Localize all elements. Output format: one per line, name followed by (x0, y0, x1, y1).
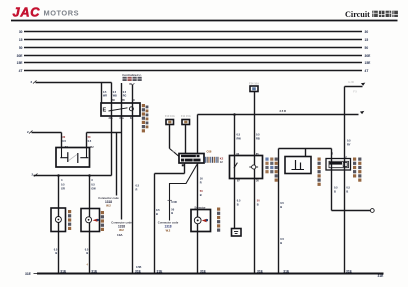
motor M3 (81, 209, 100, 232)
starter motor M1 (191, 210, 211, 232)
ground lug G1 (232, 229, 242, 237)
fuse F3 (249, 81, 259, 91)
connector label C1 (98, 196, 119, 208)
solenoid Y1 (326, 159, 351, 171)
svg-text:C08: C08 (207, 149, 212, 153)
wire v278 to ground bus (278, 149, 280, 274)
vertical text K1 name (142, 104, 145, 132)
node arrow end of W4 (360, 111, 364, 114)
relay K1 pin labels top (112, 99, 135, 102)
vertical text K2 name (265, 158, 273, 174)
wire W4 corner into X1 (197, 115, 199, 154)
wire label below M2 (54, 248, 58, 256)
wire drop to K2 pin86 (234, 115, 236, 229)
wire label below M3 (85, 248, 89, 267)
title Circuit block (345, 10, 398, 19)
wire label v278 upper (280, 201, 284, 209)
svg-text:0.5: 0.5 (91, 183, 95, 187)
svg-text:0.5: 0.5 (334, 185, 338, 189)
node junction W4-K2 (233, 113, 236, 116)
wire K1 pin86 vertical (111, 83, 113, 176)
svg-text:0.5: 0.5 (280, 237, 284, 241)
wire W-ign-left with arrow 2 (27, 130, 62, 134)
bus 30E (17, 54, 372, 58)
svg-text:31E: 31E (283, 270, 290, 274)
svg-text:0.5: 0.5 (280, 201, 284, 205)
motor M2 (51, 208, 66, 232)
wire label on v169 upper (168, 200, 177, 204)
wire label K2 pin85 wire (256, 133, 260, 141)
wire F2 down into X1 (185, 125, 187, 154)
wire W-A top left (36, 82, 112, 84)
relay K2 label left (220, 157, 224, 165)
bus 4T (19, 69, 369, 73)
svg-text:B: B (334, 189, 336, 193)
svg-text:0.5: 0.5 (85, 248, 89, 252)
wire label K1 pin86w (113, 91, 117, 97)
relay K2 (230, 156, 263, 179)
wire label v345 upper (347, 139, 351, 147)
fuse F1 (165, 114, 175, 125)
wire X1 to starter M1 (197, 163, 199, 274)
ignition switch pin labels (62, 135, 94, 149)
svg-text:0.5: 0.5 (346, 185, 350, 189)
svg-text:15E: 15E (365, 61, 372, 65)
svg-text:31E: 31E (200, 270, 207, 274)
bus 15 (19, 38, 369, 42)
svg-text:GW: GW (91, 187, 96, 191)
wire label Y1 pin2 (334, 185, 338, 193)
svg-text:0.5R: 0.5R (171, 200, 177, 204)
wire W6 stub with arrow (345, 81, 366, 93)
connector label C3 (158, 220, 179, 232)
svg-text:to 30: to 30 (348, 81, 354, 84)
wire K1 pin85 vertical (121, 83, 123, 220)
svg-text:GR: GR (61, 187, 65, 191)
svg-text:31E: 31E (25, 272, 32, 276)
svg-text:15E: 15E (17, 61, 24, 65)
svg-text:WR: WR (103, 95, 107, 98)
svg-text:W.2: W.2 (166, 229, 171, 233)
wire label M3 feed (91, 178, 96, 191)
connector label C2 (111, 221, 132, 233)
svg-text:0.5: 0.5 (256, 133, 260, 137)
relay K1 pin labels bottom (109, 117, 134, 120)
wire K1 pin1 stub (101, 83, 103, 104)
svg-text:12: 12 (220, 160, 223, 164)
wire X1 pin down-left to ground bus (155, 163, 185, 274)
fuse F2 (181, 114, 191, 125)
svg-text:0.5B: 0.5B (136, 266, 141, 269)
svg-text:B: B (156, 212, 158, 216)
wire label Y1 down (346, 185, 350, 193)
svg-text:B: B (237, 203, 239, 207)
svg-text:30E: 30E (17, 54, 24, 58)
svg-text:0.5: 0.5 (54, 248, 58, 252)
JAC logo (13, 5, 80, 20)
svg-text:30: 30 (365, 30, 369, 34)
wire stub ignition left pin (61, 133, 63, 148)
wire label M1 feed 2 (200, 189, 203, 197)
svg-text:30E: 30E (365, 54, 372, 58)
svg-text:Centralized c.: Centralized c. (122, 73, 142, 77)
svg-text:W.2: W.2 (106, 204, 111, 208)
node junction W3-M2 (57, 174, 60, 177)
svg-text:RY: RY (347, 143, 351, 147)
svg-text:87a: 87a (120, 117, 125, 120)
wire Y1 to ground bus (344, 170, 346, 274)
header rule (11, 20, 398, 22)
wire ignition to K1 (87, 132, 122, 134)
svg-text:0.5: 0.5 (88, 139, 92, 143)
wire W5 corner to Y1 pin (331, 149, 333, 211)
bus 15E (17, 61, 372, 65)
node ring terminal (370, 209, 374, 213)
svg-text:50: 50 (365, 46, 369, 50)
svg-text:2.5 R: 2.5 R (280, 109, 286, 113)
wire label K2 pin87 wire (237, 199, 241, 207)
bus 50 (19, 46, 369, 50)
wire label M2 feed (61, 178, 65, 191)
svg-text:B: B (346, 189, 348, 193)
svg-text:15: 15 (19, 38, 23, 42)
wire label M1 feed 1 (200, 177, 203, 185)
node arrow 2 at W-A (31, 80, 37, 84)
svg-text:50: 50 (19, 46, 23, 50)
svg-text:B: B (171, 211, 173, 215)
vertical text GB right (318, 158, 321, 186)
svg-text:B: B (200, 193, 202, 197)
svg-text:31E: 31E (346, 270, 353, 274)
wire label on v169 lower (171, 208, 174, 216)
wire label K2 pin86 wire (237, 133, 242, 141)
svg-text:K2: K2 (220, 157, 224, 161)
svg-text:0.5: 0.5 (61, 183, 65, 187)
svg-text:WB: WB (113, 95, 117, 98)
svg-text:B: B (280, 241, 282, 245)
svg-text:E: E (103, 108, 107, 114)
ground bus 31E (37, 273, 384, 275)
svg-text:RG: RG (123, 95, 127, 98)
wire to connector label C1 (116, 133, 118, 196)
wire label K1 pin1 (103, 91, 107, 97)
svg-text:0.5: 0.5 (136, 184, 140, 188)
svg-text:0.5: 0.5 (156, 208, 160, 212)
wire F1 diagonal into X1 (170, 149, 179, 157)
relay K1 starter relay (101, 103, 140, 116)
svg-text:30: 30 (19, 30, 23, 34)
wire label v278 (280, 237, 284, 245)
connector X1 (179, 154, 204, 164)
ground bus left label (25, 272, 37, 276)
svg-text:F 5: F 5 (353, 91, 357, 94)
wire label K2 pin30 wire (257, 199, 260, 207)
vertical text Y1 col1 (353, 158, 356, 178)
svg-text:JAC: JAC (13, 5, 41, 20)
svg-text:0.5: 0.5 (237, 199, 241, 203)
svg-text:R: R (136, 188, 138, 192)
wire label near v155 (156, 208, 160, 216)
svg-text:B: B (55, 251, 57, 255)
svg-text:1318: 1318 (105, 200, 112, 204)
svg-text:RB: RB (256, 137, 260, 141)
wire F3 down to K2 (254, 92, 256, 274)
svg-text:B: B (257, 203, 259, 207)
relay K2 pin labels bottom (237, 179, 259, 182)
svg-text:B: B (280, 205, 282, 209)
wire drop to M2 (58, 176, 60, 274)
svg-text:0.5: 0.5 (237, 133, 241, 137)
vertical text M1 name (217, 208, 220, 232)
svg-text:F24 10A: F24 10A (249, 81, 259, 85)
wire drop to M3 (89, 176, 91, 274)
relay K2 pin labels top (236, 153, 259, 156)
label central control box (122, 73, 142, 86)
svg-text:MOTORS: MOTORS (44, 8, 80, 17)
svg-text:31E: 31E (257, 270, 264, 274)
svg-text:31E: 31E (378, 274, 385, 278)
wire branch to ring terminal (332, 210, 371, 212)
svg-text:1318: 1318 (118, 224, 125, 228)
svg-text:8 C: 8 C (173, 151, 177, 154)
svg-text:4T: 4T (19, 69, 23, 73)
wire label K1 pin30 wire (136, 184, 140, 192)
bus 30 (19, 30, 369, 34)
svg-text:W.2: W.2 (119, 228, 124, 232)
svg-text:4T: 4T (365, 69, 369, 73)
svg-text:10A: 10A (117, 233, 123, 237)
wire W5 top (279, 148, 332, 150)
wire W4 main horizontal (198, 114, 359, 116)
wire stub ignition right pin (86, 133, 88, 148)
svg-text:31E: 31E (60, 270, 67, 274)
wire drop to battery GB (305, 149, 307, 157)
svg-text:30a: 30a (109, 117, 114, 120)
svg-text:31E: 31E (91, 270, 98, 274)
wire label K1 pin85w (123, 91, 127, 97)
wire v345 from W6 to Y1 (344, 87, 346, 171)
svg-text:1318: 1318 (164, 225, 171, 229)
svg-text:F11 15A: F11 15A (181, 114, 191, 118)
vertical text M2 name (68, 210, 71, 230)
label text right of X1 (205, 157, 219, 163)
battery GB (285, 157, 311, 174)
ignition switch S1 (56, 148, 90, 168)
svg-text:Circuit: Circuit (345, 10, 370, 19)
svg-text:B: B (86, 251, 88, 255)
svg-text:R: R (200, 181, 202, 185)
svg-text:15: 15 (365, 38, 369, 42)
svg-text:F10 10A: F10 10A (165, 114, 175, 118)
vertical text M3 name (101, 211, 104, 231)
vertical text Y1 col2 (358, 158, 361, 182)
node junction W3-M3 (88, 174, 91, 177)
svg-text:31E: 31E (135, 270, 142, 274)
svg-text:RW: RW (237, 137, 242, 141)
node pin dot below X1 (182, 164, 184, 166)
wire K1 pin30 vertical to ground bus (132, 85, 134, 274)
svg-text:31E: 31E (157, 270, 164, 274)
wire F1 down (169, 125, 171, 149)
wire W3 with arrow 2 (32, 173, 112, 177)
svg-text:0.5: 0.5 (62, 139, 66, 143)
wire X1 diagonal pin out (170, 164, 198, 220)
vertical text GB left (275, 158, 278, 182)
svg-text:0.5: 0.5 (347, 139, 351, 143)
